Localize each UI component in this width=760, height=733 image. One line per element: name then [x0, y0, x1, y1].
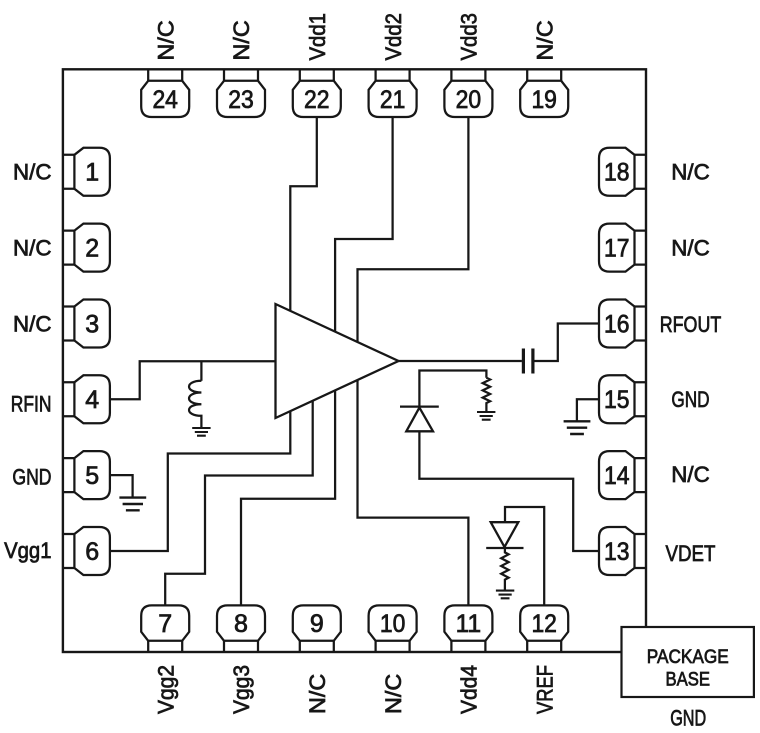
ground at pin 15: [564, 421, 591, 434]
wire detector branch under output line: [419, 371, 486, 407]
wire Vdd4 pin11 to amplifier output stage: [358, 375, 469, 605]
svg-text:N/C: N/C: [13, 160, 52, 185]
svg-text:N/C: N/C: [671, 462, 710, 487]
pin 2 pad: [63, 224, 110, 272]
pin 1 pad: [63, 148, 110, 196]
wire RFIN pin4 to amplifier input: [110, 361, 276, 399]
package base box: [622, 627, 754, 697]
svg-text:RFOUT: RFOUT: [660, 312, 722, 337]
pin 18 pad: [599, 148, 646, 196]
ground below resistor R1: [477, 412, 495, 420]
svg-text:10: 10: [380, 610, 406, 638]
svg-text:N/C: N/C: [305, 674, 330, 714]
svg-text:BASE: BASE: [666, 669, 711, 691]
pin 22 pad: [293, 69, 341, 117]
pin 14 pad: [599, 451, 646, 499]
svg-text:23: 23: [228, 86, 254, 114]
pin 10 pad: [369, 605, 417, 652]
diode D2 reference: [486, 522, 523, 548]
pin 7 pad: [141, 605, 189, 652]
pin 9 pad: [293, 605, 341, 652]
svg-text:20: 20: [456, 86, 482, 114]
svg-text:GND: GND: [671, 387, 709, 412]
wire diode D1 to VDET pin13: [419, 431, 599, 551]
ground below inductor L1: [192, 428, 210, 436]
svg-text:N/C: N/C: [671, 160, 710, 185]
svg-text:PACKAGE: PACKAGE: [647, 646, 729, 668]
wire inductor stub from RFIN line: [200, 361, 202, 381]
package outline: [63, 69, 646, 652]
wire capacitor to RFOUT pin16: [534, 324, 599, 362]
svg-text:3: 3: [85, 310, 99, 338]
svg-text:GND: GND: [12, 465, 51, 490]
svg-text:24: 24: [152, 86, 178, 114]
svg-text:6: 6: [85, 538, 99, 566]
svg-text:Vgg2: Vgg2: [153, 665, 178, 714]
svg-text:14: 14: [604, 462, 630, 490]
inductor L1 shunt on RFIN: [189, 381, 201, 428]
ground below resistor R2: [496, 591, 514, 599]
pin 16 pad: [599, 300, 646, 348]
pin 13 pad: [599, 527, 646, 575]
pin 24 pad: [141, 69, 189, 117]
svg-text:N/C: N/C: [671, 235, 710, 260]
pin 11 pad: [444, 605, 492, 652]
svg-text:GND: GND: [670, 706, 706, 731]
wire Vdd3 pin20 to amplifier stage 3 drain: [358, 117, 469, 355]
label PACKAGE BASE: [647, 646, 729, 691]
svg-text:2: 2: [85, 235, 99, 263]
svg-text:N/C: N/C: [153, 20, 178, 60]
svg-text:VREF: VREF: [532, 665, 557, 714]
resistor R2 below diode D2: [501, 548, 508, 590]
svg-text:16: 16: [604, 310, 630, 338]
svg-text:N/C: N/C: [381, 674, 406, 714]
pin 21 pad: [369, 69, 417, 117]
svg-text:17: 17: [604, 235, 630, 263]
wire Vdd2 pin21 to amplifier stage 2 drain: [335, 117, 393, 350]
pin 12 pad: [520, 605, 568, 652]
diode D1 detector: [400, 407, 439, 432]
svg-text:18: 18: [604, 159, 630, 187]
wire amplifier output to capacitor: [399, 360, 522, 362]
svg-text:1: 1: [85, 159, 99, 187]
svg-text:Vdd4: Vdd4: [457, 665, 482, 714]
svg-text:RFIN: RFIN: [11, 392, 52, 417]
svg-text:N/C: N/C: [532, 20, 557, 60]
wire GND pin5 to ground: [110, 475, 133, 497]
svg-text:N/C: N/C: [13, 236, 52, 261]
svg-text:21: 21: [380, 86, 406, 114]
wire VREF pin12 to diode D2: [505, 507, 544, 605]
wire Vdd1 pin22 to amplifier stage 1 drain: [290, 117, 317, 330]
pin 23 pad: [217, 69, 265, 117]
op-amp A1 (3-stage amplifier): [276, 304, 399, 418]
wire Vgg3 pin8 to amplifier stage 3 gate: [241, 385, 335, 605]
svg-text:N/C: N/C: [229, 20, 254, 60]
pin 19 pad: [520, 69, 568, 117]
pin 8 pad: [217, 605, 265, 652]
pin 20 pad: [444, 69, 492, 117]
svg-text:7: 7: [158, 610, 172, 638]
svg-text:Vgg3: Vgg3: [229, 665, 254, 714]
svg-text:12: 12: [531, 610, 557, 638]
wire Vgg2 pin7 to amplifier stage 2 gate: [165, 390, 313, 605]
resistor R1 detector load: [483, 378, 490, 412]
wire GND pin15 to ground: [577, 399, 599, 421]
pin 17 pad: [599, 224, 646, 272]
svg-text:11: 11: [456, 610, 482, 638]
svg-text:Vdd1: Vdd1: [305, 13, 330, 61]
svg-text:Vgg1: Vgg1: [4, 538, 51, 563]
pin 15 pad: [599, 375, 646, 423]
svg-text:5: 5: [85, 462, 99, 490]
svg-text:N/C: N/C: [13, 311, 52, 336]
svg-text:9: 9: [310, 610, 324, 638]
pin 5 pad: [63, 451, 110, 499]
svg-text:Vdd2: Vdd2: [381, 13, 406, 61]
svg-text:4: 4: [85, 386, 99, 414]
pin 3 pad: [63, 300, 110, 348]
svg-text:15: 15: [604, 386, 630, 414]
svg-text:22: 22: [304, 86, 330, 114]
pin 6 pad: [63, 527, 110, 575]
svg-text:Vdd3: Vdd3: [457, 13, 482, 61]
svg-text:13: 13: [604, 538, 630, 566]
svg-text:VDET: VDET: [666, 541, 716, 566]
capacitor C1 DC block: [523, 349, 533, 374]
svg-text:8: 8: [234, 610, 248, 638]
svg-text:19: 19: [531, 86, 557, 114]
wire Vgg1 pin6 to amplifier stage 1 gate: [110, 400, 290, 551]
pin 4 pad: [63, 375, 110, 423]
ground at pin 5: [119, 498, 146, 511]
